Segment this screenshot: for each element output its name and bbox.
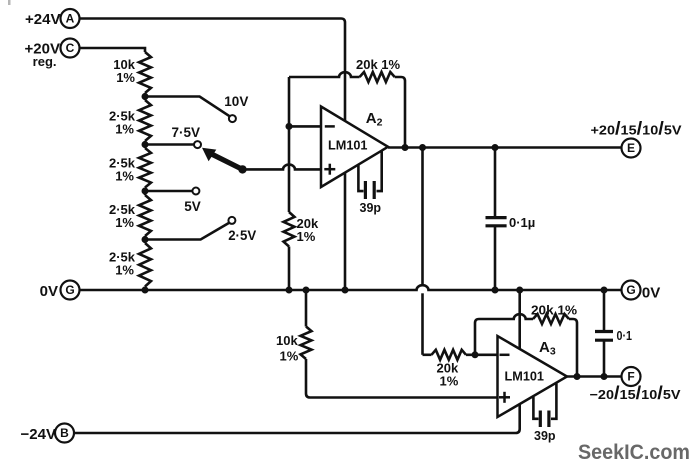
svg-text:1%: 1% (115, 215, 134, 230)
svg-text:LM101: LM101 (505, 369, 545, 384)
svg-text:1%: 1% (116, 70, 135, 85)
svg-text:0V: 0V (40, 283, 58, 300)
svg-text:E: E (627, 141, 635, 155)
svg-text:7·5V: 7·5V (172, 125, 201, 140)
svg-text:1%: 1% (115, 263, 134, 278)
svg-text:A: A (66, 12, 75, 26)
svg-text:SeekIC.com: SeekIC.com (578, 440, 690, 464)
svg-text:10V: 10V (224, 94, 248, 109)
svg-text:1%: 1% (115, 122, 134, 137)
svg-text:20k 1%: 20k 1% (356, 57, 401, 72)
svg-text:10k: 10k (276, 333, 298, 348)
svg-text:0·1: 0·1 (617, 329, 633, 343)
svg-text:39p: 39p (534, 429, 556, 443)
svg-text:C: C (66, 41, 75, 55)
svg-text:B: B (60, 426, 69, 440)
svg-text:1%: 1% (115, 169, 134, 184)
svg-text:LM101: LM101 (328, 138, 368, 153)
svg-text:39p: 39p (360, 201, 382, 215)
svg-text:0V: 0V (642, 285, 660, 302)
svg-text:1%: 1% (297, 229, 316, 244)
svg-text:1%: 1% (280, 349, 299, 364)
svg-text:+24V: +24V (25, 11, 60, 28)
svg-text:G: G (626, 283, 635, 297)
svg-text:0·1µ: 0·1µ (509, 215, 535, 230)
svg-text:F: F (627, 370, 634, 384)
svg-text:1%: 1% (440, 374, 459, 389)
svg-text:2·5V: 2·5V (228, 228, 256, 243)
svg-text:20k 1%: 20k 1% (531, 303, 577, 318)
svg-text:−24V: −24V (21, 426, 56, 443)
svg-text:G: G (65, 283, 74, 297)
svg-text:5V: 5V (184, 199, 201, 214)
svg-text:reg.: reg. (33, 54, 57, 69)
